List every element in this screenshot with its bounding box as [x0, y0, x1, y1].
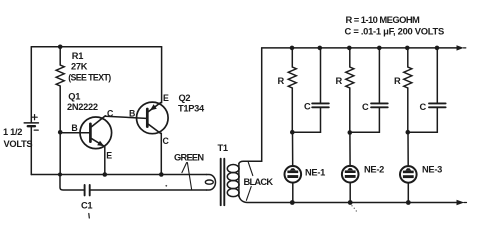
node: NE-3 bottom junction — [406, 200, 411, 205]
node: stage1 junction — [290, 130, 295, 135]
wire: NE-1 to bottom rail — [292, 183, 294, 203]
wire: stage1 junction to lamp — [292, 132, 294, 166]
svg-text:(SEE TEXT): (SEE TEXT) — [68, 72, 111, 82]
svg-text:R: R — [394, 76, 401, 86]
node: stage3 R top — [405, 46, 410, 51]
wire: stage3 RC junction — [408, 131, 438, 133]
battery - sign — [34, 129, 38, 131]
wire: secondary bottom lead into bottom rail — [239, 196, 457, 203]
stage 3: resistor R — [404, 48, 412, 132]
transformer T1 primary twist loop — [205, 180, 213, 184]
node: R1 top junction on rail — [58, 45, 63, 50]
battery label 1 1/2 VOLTS — [3, 127, 32, 149]
svg-text:C = .01-1 μF, 200 VOLTS: C = .01-1 μF, 200 VOLTS — [345, 26, 444, 37]
svg-text:E: E — [106, 151, 112, 161]
label GREEN with pointers — [174, 153, 204, 190]
wire: right network top rail — [262, 47, 457, 49]
svg-text:2N2222: 2N2222 — [67, 102, 98, 112]
svg-text:NE-3: NE-3 — [422, 164, 442, 174]
node: base tap junction — [58, 130, 63, 135]
wire: stage3 junction to lamp — [407, 132, 409, 166]
node: NE-2 bottom junction — [348, 200, 353, 205]
svg-text:VOLTS: VOLTS — [4, 139, 33, 149]
wire: secondary top lead to right-network corner — [239, 48, 262, 164]
wire: stage1 RC junction — [292, 131, 320, 133]
stage 2: resistor R — [346, 48, 354, 132]
svg-text:Q2: Q2 — [179, 93, 191, 103]
node: stage3 junction — [406, 130, 411, 135]
svg-text:B: B — [129, 108, 135, 118]
node: stage1 R top — [290, 46, 295, 51]
stray scan speck near primary lead — [165, 185, 167, 187]
transformer T1 secondary coil loops — [227, 164, 239, 197]
wire: stage2 junction to lamp — [349, 132, 351, 166]
node: NE-1 bottom junction — [290, 200, 295, 205]
wire: Q1 collector to Q2 base — [105, 116, 146, 118]
neon lamp NE-1 — [285, 166, 302, 183]
wire: battery - down to bottom wire — [30, 128, 32, 175]
capacitor C1 — [85, 185, 90, 195]
svg-text:C1: C1 — [81, 201, 92, 211]
stage 2: capacitor C branch — [371, 48, 388, 132]
svg-text:B: B — [71, 123, 77, 133]
stage 3: capacitor C branch — [429, 48, 446, 132]
arrow: bottom rail right end — [457, 200, 465, 205]
svg-text:R1: R1 — [72, 51, 83, 61]
node: stage2 junction — [348, 130, 353, 135]
svg-text:R = 1-10 MEGOHM: R = 1-10 MEGOHM — [346, 14, 421, 25]
svg-text:NE-1: NE-1 — [305, 167, 325, 177]
wire: C1 branch down and right — [60, 175, 84, 191]
svg-text:C: C — [304, 101, 311, 111]
svg-text:R: R — [278, 76, 285, 86]
svg-text:GREEN: GREEN — [174, 153, 204, 163]
stage 1: resistor R — [288, 48, 296, 132]
neon lamp NE-3 — [400, 166, 417, 183]
svg-text:1 1/2: 1 1/2 — [3, 127, 22, 137]
svg-text:T1P34: T1P34 — [178, 104, 205, 114]
wire: NE-2 to bottom rail — [349, 183, 351, 203]
node: Q1 emitter junction — [103, 172, 108, 177]
wire: stage2 RC junction — [350, 131, 380, 133]
transistor Q2 T1P34 — [137, 102, 169, 134]
svg-text:T1: T1 — [218, 143, 228, 153]
svg-text:BLACK: BLACK — [244, 177, 274, 187]
wire: left vertical from top rail to battery + — [30, 47, 32, 122]
transistor Q1 2N2222 — [60, 116, 111, 149]
wire: C1 to transformer primary bottom — [91, 189, 207, 191]
svg-text:C: C — [362, 102, 369, 112]
transformer T1 core bars — [221, 159, 225, 206]
node: Q2 collector junction — [159, 172, 164, 177]
wire: NE-3 to bottom rail — [407, 183, 409, 203]
svg-text:E: E — [163, 93, 169, 103]
battery B1 1 1/2 V plates — [24, 123, 38, 126]
wire: R1 branch from base tap to bottom wire — [59, 132, 61, 174]
svg-text:NE-2: NE-2 — [364, 164, 384, 174]
svg-text:R: R — [336, 76, 343, 86]
stray scan speck near NE-2 bottom — [351, 205, 357, 212]
node: stage1 C top — [318, 46, 323, 51]
svg-text:Q1: Q1 — [68, 91, 80, 101]
node: stage2 R top — [347, 46, 352, 51]
node: C1 tap on bottom wire — [58, 173, 62, 177]
label Q2 T1P34 — [178, 93, 205, 114]
label R1 — [68, 51, 111, 82]
neon lamp NE-2 — [342, 166, 359, 183]
transformer T1 primary U-turn — [207, 175, 216, 191]
svg-text:C: C — [163, 136, 170, 146]
resistor R1 27K — [56, 47, 64, 133]
label BLACK with pointers — [244, 162, 274, 200]
svg-text:27K: 27K — [71, 62, 88, 72]
node: stage2 C top — [377, 46, 382, 51]
wire: bottom wire from battery to transformer primary — [31, 174, 206, 176]
battery + sign — [32, 115, 37, 120]
stage 1: capacitor C branch — [312, 48, 329, 132]
svg-text:C: C — [420, 102, 427, 112]
wire: Q1 emitter down to bottom wire — [104, 147, 106, 175]
arrow: top rail right end — [457, 45, 464, 50]
tick mark under C1 — [88, 214, 91, 219]
wire: Q2 emitter up to top rail — [161, 47, 163, 103]
label Q1 2N2222 — [67, 91, 98, 112]
node: stage3 C top — [435, 46, 440, 51]
wire: Q2 collector down to bottom wire — [160, 133, 162, 174]
wire: top rail of oscillator loop — [31, 46, 161, 48]
